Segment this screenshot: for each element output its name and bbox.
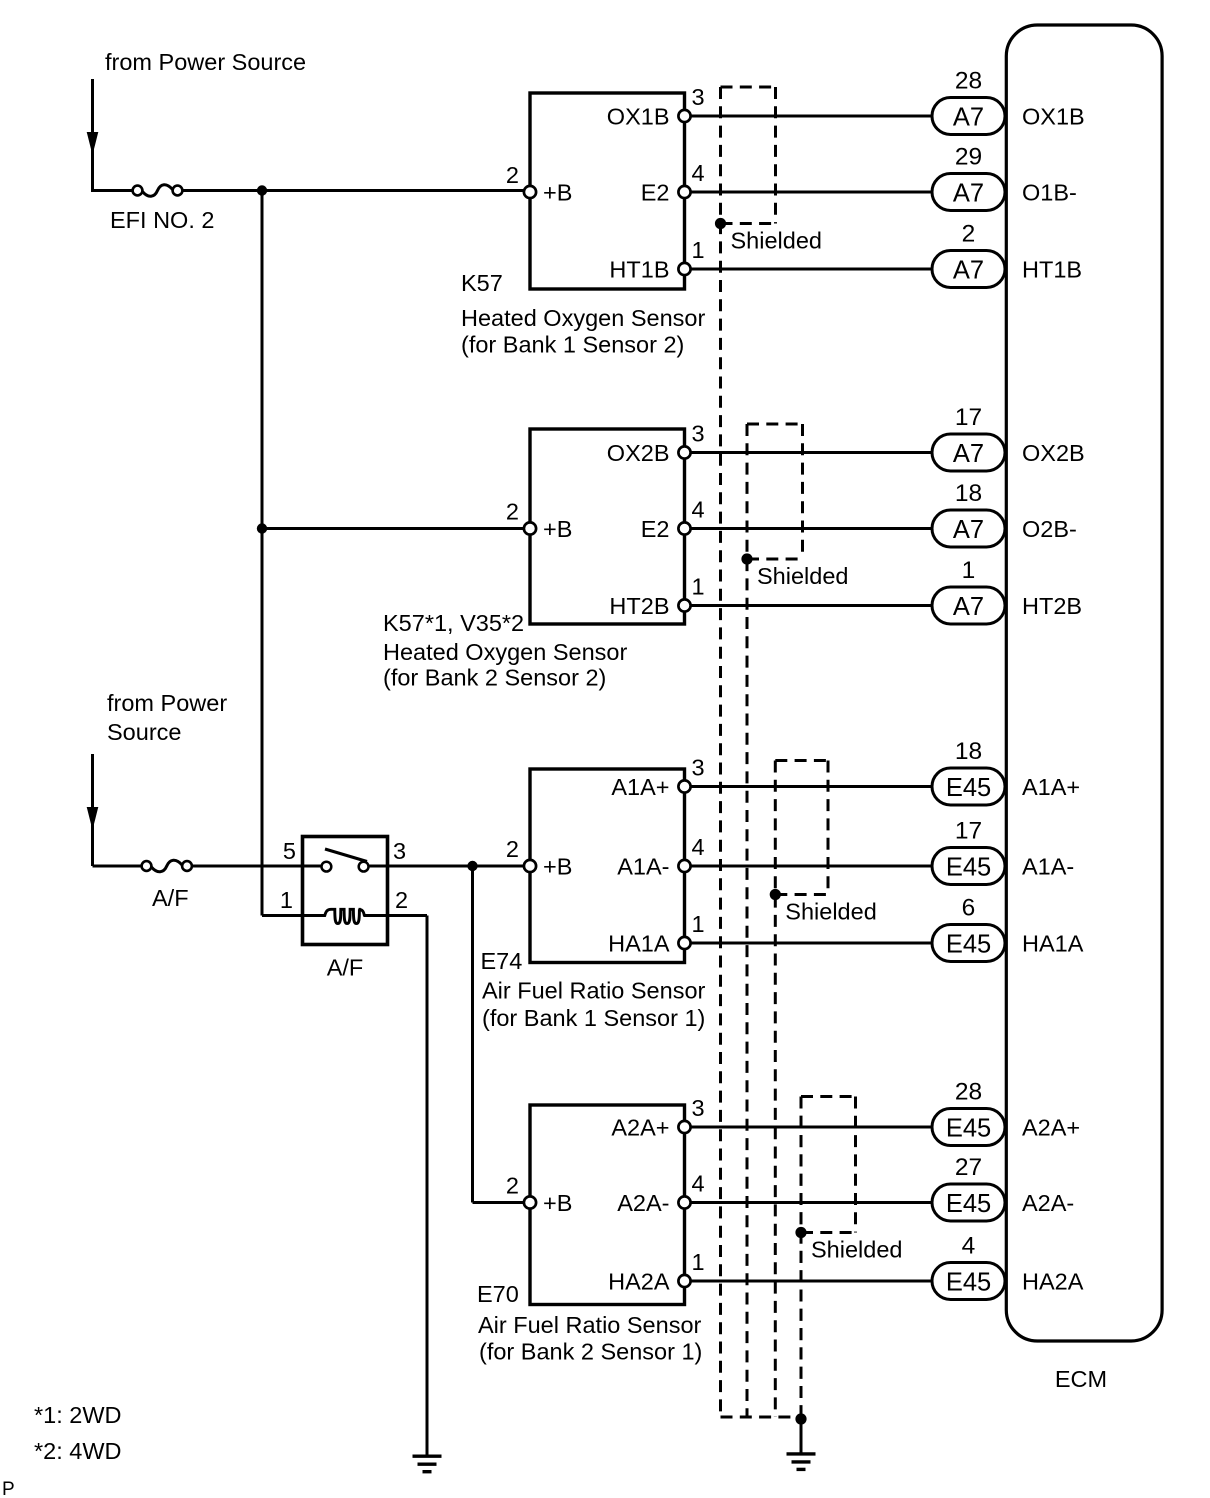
svg-text:from Power: from Power — [107, 690, 227, 716]
svg-text:E70: E70 — [477, 1281, 519, 1307]
svg-text:18: 18 — [955, 738, 982, 765]
svg-text:Source: Source — [107, 719, 181, 745]
svg-text:1: 1 — [280, 887, 293, 913]
svg-text:27: 27 — [955, 1154, 982, 1181]
svg-text:HA2A: HA2A — [608, 1269, 670, 1295]
svg-text:2: 2 — [506, 836, 519, 862]
svg-text:1: 1 — [692, 911, 705, 937]
svg-text:O2B-: O2B- — [1022, 516, 1077, 542]
svg-text:A1A-: A1A- — [1022, 854, 1074, 880]
svg-text:from Power Source: from Power Source — [105, 49, 306, 75]
svg-text:(for Bank 1 Sensor 2): (for Bank 1 Sensor 2) — [461, 332, 684, 358]
svg-text:(for Bank 2 Sensor 2): (for Bank 2 Sensor 2) — [383, 665, 606, 691]
svg-text:17: 17 — [955, 404, 982, 431]
svg-text:1: 1 — [692, 1249, 705, 1275]
svg-text:3: 3 — [692, 1095, 705, 1121]
svg-text:E74: E74 — [481, 948, 523, 974]
svg-text:4: 4 — [692, 1171, 705, 1197]
svg-text:+B: +B — [543, 180, 572, 206]
svg-text:OX1B: OX1B — [607, 104, 670, 130]
svg-text:E45: E45 — [946, 1269, 991, 1297]
svg-text:1: 1 — [692, 237, 705, 263]
svg-text:EFI NO. 2: EFI NO. 2 — [110, 207, 214, 233]
svg-text:(for Bank 1 Sensor 1): (for Bank 1 Sensor 1) — [482, 1005, 705, 1031]
svg-text:4: 4 — [692, 497, 705, 523]
svg-text:A1A-: A1A- — [617, 854, 669, 880]
svg-text:3: 3 — [692, 421, 705, 447]
svg-text:Heated Oxygen Sensor: Heated Oxygen Sensor — [383, 639, 627, 665]
svg-text:*1: 2WD: *1: 2WD — [34, 1402, 122, 1428]
svg-text:A7: A7 — [953, 180, 984, 208]
svg-text:A7: A7 — [953, 440, 984, 468]
svg-text:A7: A7 — [953, 104, 984, 132]
svg-text:HA1A: HA1A — [608, 931, 670, 957]
svg-text:4: 4 — [692, 834, 705, 860]
svg-text:A1A+: A1A+ — [1022, 774, 1080, 800]
svg-text:1: 1 — [962, 557, 976, 584]
svg-text:A2A-: A2A- — [1022, 1190, 1074, 1216]
svg-text:E45: E45 — [946, 854, 991, 882]
svg-text:Shielded: Shielded — [811, 1237, 902, 1263]
svg-text:E45: E45 — [946, 1115, 991, 1143]
svg-text:A2A+: A2A+ — [611, 1115, 669, 1141]
svg-text:2: 2 — [506, 162, 519, 188]
svg-text:3: 3 — [692, 84, 705, 110]
svg-text:Air Fuel Ratio Sensor: Air Fuel Ratio Sensor — [482, 978, 706, 1004]
svg-text:29: 29 — [955, 144, 982, 171]
svg-text:A/F: A/F — [327, 955, 364, 981]
svg-text:A2A-: A2A- — [617, 1190, 669, 1216]
svg-text:+B: +B — [543, 854, 572, 880]
svg-text:(for Bank 2 Sensor 1): (for Bank 2 Sensor 1) — [479, 1339, 702, 1365]
svg-text:E45: E45 — [946, 931, 991, 959]
svg-text:HA2A: HA2A — [1022, 1269, 1084, 1295]
svg-text:4: 4 — [962, 1233, 976, 1260]
svg-text:K57*1, V35*2: K57*1, V35*2 — [383, 610, 524, 636]
svg-text:A7: A7 — [953, 257, 984, 285]
svg-text:28: 28 — [955, 68, 982, 95]
svg-text:E45: E45 — [946, 1190, 991, 1218]
svg-text:OX1B: OX1B — [1022, 104, 1085, 130]
svg-text:1: 1 — [692, 574, 705, 600]
svg-text:Shielded: Shielded — [731, 228, 822, 254]
svg-text:Shielded: Shielded — [785, 899, 876, 925]
svg-text:ECM: ECM — [1055, 1366, 1107, 1392]
svg-text:Shielded: Shielded — [757, 563, 848, 589]
svg-text:3: 3 — [393, 838, 406, 864]
svg-text:2: 2 — [395, 887, 408, 913]
svg-text:E45: E45 — [946, 774, 991, 802]
svg-text:E2: E2 — [641, 516, 670, 542]
svg-text:4: 4 — [692, 160, 705, 186]
svg-text:E2: E2 — [641, 180, 670, 206]
svg-text:Heated Oxygen Sensor: Heated Oxygen Sensor — [461, 305, 705, 331]
svg-text:A/F: A/F — [152, 885, 189, 911]
svg-text:17: 17 — [955, 818, 982, 845]
svg-text:HT1B: HT1B — [1022, 257, 1082, 283]
svg-text:A1A+: A1A+ — [611, 774, 669, 800]
svg-text:2: 2 — [506, 1173, 519, 1199]
svg-text:2: 2 — [506, 499, 519, 525]
svg-text:O1B-: O1B- — [1022, 180, 1077, 206]
svg-text:HT2B: HT2B — [609, 593, 669, 619]
svg-text:5: 5 — [283, 838, 296, 864]
svg-text:A7: A7 — [953, 516, 984, 544]
svg-text:Air Fuel Ratio Sensor: Air Fuel Ratio Sensor — [478, 1312, 702, 1338]
svg-text:OX2B: OX2B — [607, 440, 670, 466]
svg-text:HT2B: HT2B — [1022, 593, 1082, 619]
svg-text:3: 3 — [692, 755, 705, 781]
svg-text:A2A+: A2A+ — [1022, 1115, 1080, 1141]
svg-text:2: 2 — [962, 221, 976, 248]
svg-text:28: 28 — [955, 1079, 982, 1106]
svg-text:*2: 4WD: *2: 4WD — [34, 1438, 122, 1464]
svg-text:A7: A7 — [953, 593, 984, 621]
svg-text:HT1B: HT1B — [609, 257, 669, 283]
svg-text:18: 18 — [955, 480, 982, 507]
svg-text:+B: +B — [543, 516, 572, 542]
svg-text:HA1A: HA1A — [1022, 931, 1084, 957]
svg-text:OX2B: OX2B — [1022, 440, 1085, 466]
svg-text:K57: K57 — [461, 270, 503, 296]
svg-text:P: P — [2, 1479, 15, 1498]
svg-text:+B: +B — [543, 1190, 572, 1216]
svg-text:6: 6 — [962, 895, 976, 922]
